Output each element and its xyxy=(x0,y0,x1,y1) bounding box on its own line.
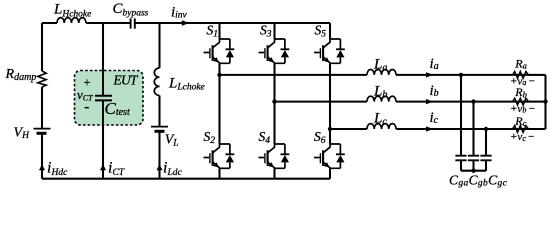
svg-text:+: + xyxy=(83,76,91,90)
svg-text:EUT: EUT xyxy=(113,72,139,87)
svg-text:+vc−: +vc− xyxy=(510,131,535,143)
svg-text:+va−: +va− xyxy=(510,76,535,88)
svg-text:+vb−: +vb− xyxy=(510,103,535,115)
